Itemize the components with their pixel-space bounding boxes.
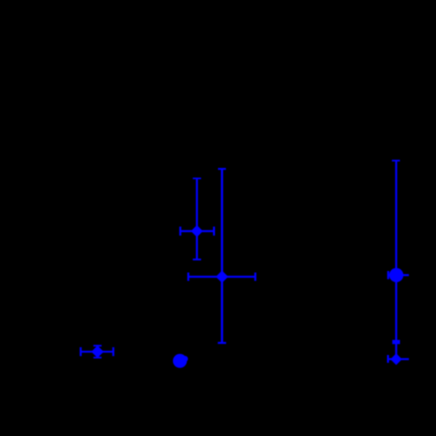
- point P1 x-error left cap: [80, 347, 82, 356]
- point P1 x-error right cap: [112, 347, 114, 356]
- point P6 diamond marker: [390, 353, 402, 365]
- point P3 x-error bar: [180, 230, 214, 232]
- point P5 y-error bar: [395, 161, 397, 341]
- point P4 y-error top cap: [218, 168, 226, 170]
- point P2 small overlapped marker bump: [182, 356, 188, 362]
- point P4 diamond marker: [216, 271, 228, 283]
- point P3 x-error left cap: [179, 227, 181, 236]
- point P3 x-error right cap: [213, 227, 215, 236]
- point P2 circle marker: [173, 354, 187, 368]
- point P5 y-error top cap: [392, 160, 400, 162]
- point P4 x-error right cap: [254, 273, 256, 281]
- point P3 diamond marker: [191, 225, 203, 237]
- point P1 y-error top cap: [93, 345, 101, 347]
- point P6 x-error left cap: [387, 355, 389, 363]
- point P3 y-error top cap: [193, 177, 201, 179]
- point P6 x-error bar: [388, 358, 409, 360]
- point P4 y-error bottom cap: [218, 342, 226, 344]
- point P5 x-error bar: [388, 274, 409, 276]
- point P3 y-error bottom cap: [193, 259, 201, 261]
- point P4 x-error bar: [188, 276, 255, 278]
- point P5 y-error bottom cap: [392, 340, 400, 344]
- point P5 x-error left cap: [387, 271, 389, 279]
- point P4 x-error left cap: [187, 273, 189, 281]
- point P5 circle marker: [389, 268, 403, 282]
- point P1 x-error bar: [81, 351, 114, 353]
- point P1 diamond marker: [91, 346, 103, 358]
- point P1 y-error bottom cap: [93, 357, 101, 359]
- point P6 y-error bar: [395, 343, 397, 359]
- point P3 y-error bar: [196, 178, 198, 259]
- point P4 y-error bar: [221, 169, 223, 343]
